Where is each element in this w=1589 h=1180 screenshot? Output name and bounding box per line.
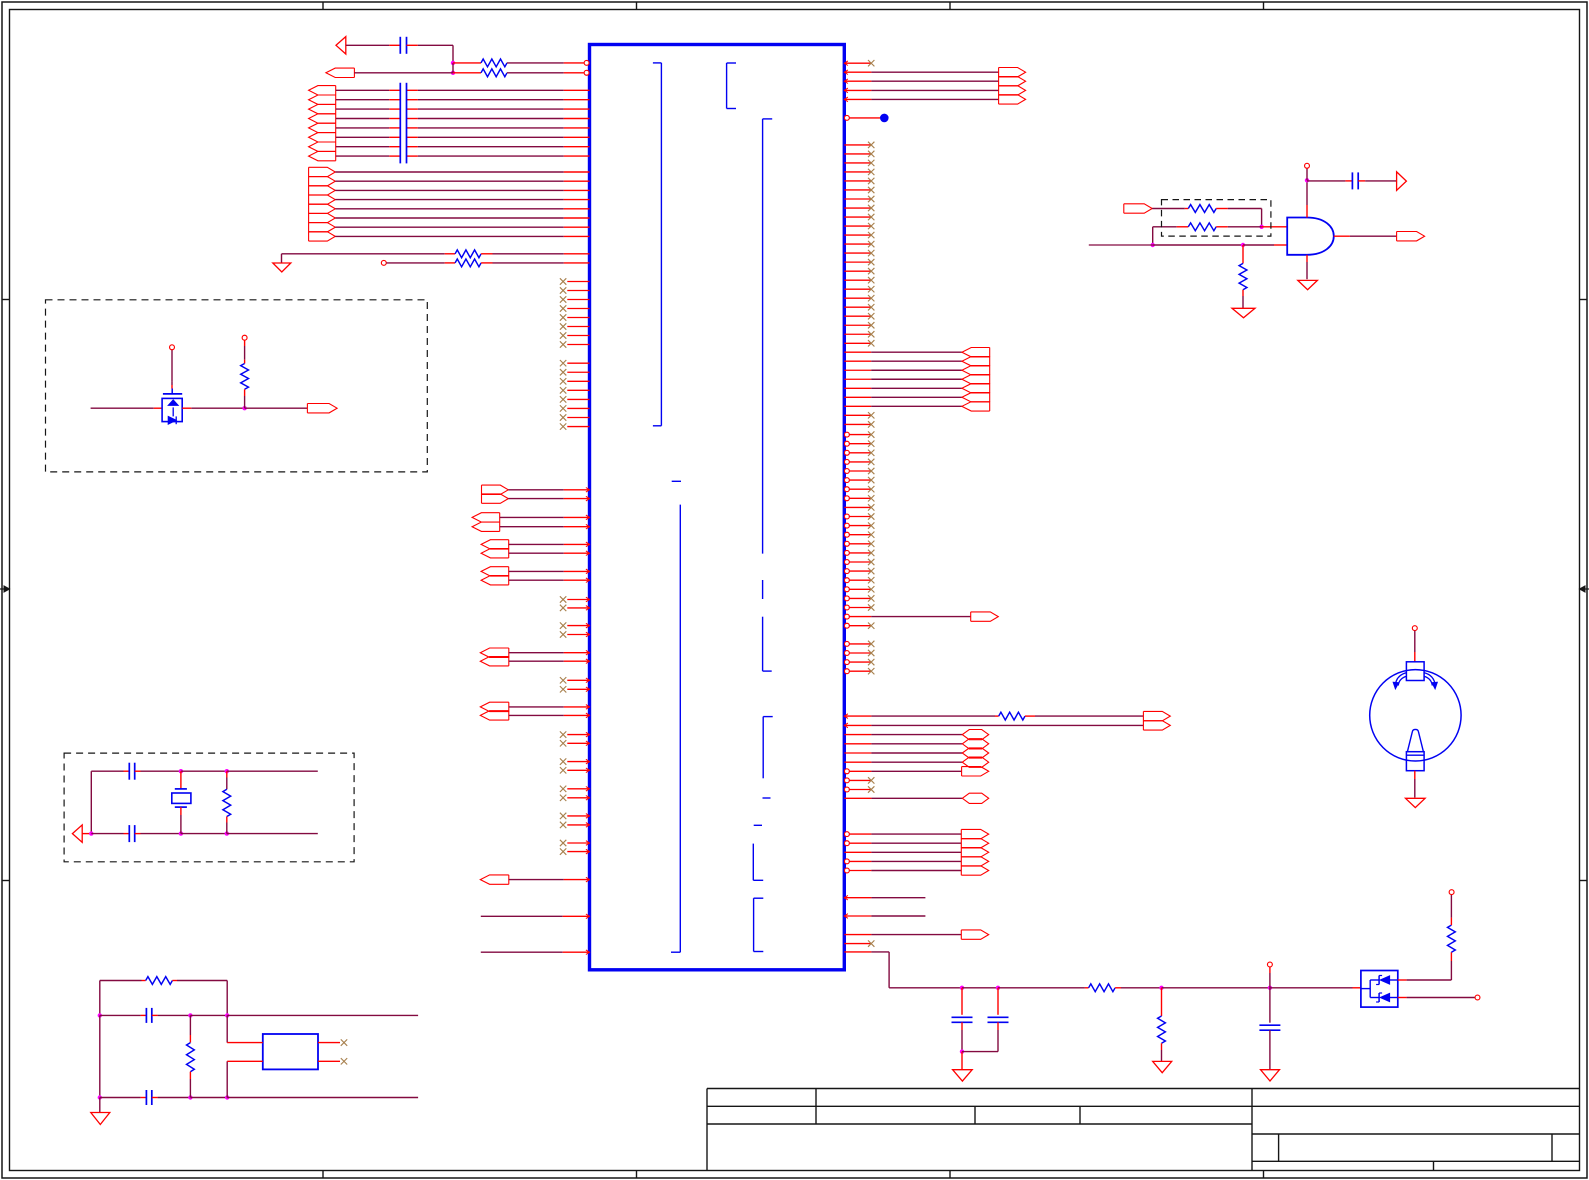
no-connect pin right a9 xyxy=(844,216,871,218)
port connector P6 xyxy=(307,404,337,413)
port connector S7 xyxy=(961,930,988,939)
no-connect pin left 2 xyxy=(567,290,589,292)
port connector S2-7 xyxy=(962,402,990,411)
dual diode Q1 d1 xyxy=(1380,976,1389,984)
no-connect pin U3 out2 xyxy=(318,1060,340,1062)
pin stub G1-4 r xyxy=(407,118,418,120)
wire G2-3 xyxy=(335,189,564,191)
no-connect pin left mid 8 xyxy=(567,742,589,744)
pin stub C7 bot xyxy=(961,1022,963,1030)
pin bubble gate vcc xyxy=(1305,163,1310,168)
junction J11 xyxy=(179,831,183,835)
port connector G1-5 xyxy=(309,123,336,132)
power arrow GND6 xyxy=(1153,1061,1172,1072)
wire Vin dn xyxy=(1269,973,1271,988)
port connector S2-6 xyxy=(962,393,990,402)
port connector H3 xyxy=(962,748,988,758)
port connector N3 xyxy=(480,875,509,884)
wire M2a xyxy=(500,516,564,518)
wire G1-5 a xyxy=(336,127,390,129)
pin stub R3 l xyxy=(445,253,455,255)
pin bubble R10 vcc xyxy=(242,335,247,340)
wire reg row1 a xyxy=(100,1014,141,1016)
pin stub S6-4 xyxy=(850,860,872,862)
tvs diode D1 gate stem xyxy=(171,389,173,394)
capacitor C4 xyxy=(128,825,130,842)
pin stub row 952 xyxy=(844,951,871,953)
no-connect pin right c8 xyxy=(844,496,849,501)
port connector H2 xyxy=(962,739,988,749)
no-connect pin left mid 12 xyxy=(567,797,589,799)
wire C8 dn xyxy=(997,1030,999,1052)
resistor R6 xyxy=(999,712,1025,720)
wire J4 to R8 xyxy=(1153,226,1177,228)
wire row 934 xyxy=(871,934,961,936)
port connector G2-6 xyxy=(309,213,336,222)
no-connect pin right a15 xyxy=(844,270,871,272)
pin stub gate in1 xyxy=(1262,226,1288,228)
no-connect pin right c17 xyxy=(844,578,849,583)
junction J2 xyxy=(451,71,455,75)
port connector M1a xyxy=(482,485,509,494)
wire D1 top xyxy=(171,382,173,385)
pin stub R13 bot xyxy=(189,1072,191,1079)
no-connect pin right a23 xyxy=(844,342,871,344)
capacitor array CA1 xyxy=(399,83,401,164)
IC internal bracket J xyxy=(753,898,755,951)
port connector G2-1 xyxy=(309,167,336,176)
pin stub bluedot xyxy=(850,117,881,119)
port connector G2-3 xyxy=(309,186,336,195)
junction J13 xyxy=(98,1013,102,1017)
wire xtal top b xyxy=(141,770,181,772)
pin stub L5 xyxy=(563,951,590,953)
no-connect pin right c6 xyxy=(844,478,849,483)
no-connect pin right d3 xyxy=(844,660,849,665)
tvs diode D1 up arrow xyxy=(168,400,178,406)
capacitor C9 xyxy=(1259,1024,1280,1026)
pin stub M3a xyxy=(564,543,590,545)
junction J20 xyxy=(996,986,1000,990)
pin stub Y1 bot xyxy=(180,807,182,815)
pin stub R5-7 xyxy=(844,405,871,407)
pin stub G2-1 xyxy=(564,171,590,173)
port connector S1-1 xyxy=(999,68,1026,77)
tvs diode D1 body xyxy=(162,398,182,421)
wire C9 up xyxy=(1269,988,1271,1023)
crystal Y1 bottom plate xyxy=(175,806,187,808)
no-connect pin left 15 xyxy=(567,417,589,419)
resistor R15 xyxy=(1158,1016,1166,1043)
pin bubble S6-2 xyxy=(844,841,849,846)
capacitor C5 xyxy=(145,1008,147,1023)
pin stub Vin xyxy=(1269,967,1271,973)
pin stub C4 r xyxy=(135,833,141,835)
wire C2 to arrow xyxy=(1365,180,1396,182)
pin stub G2-4 xyxy=(564,199,590,201)
pin stub N1b xyxy=(564,660,590,662)
pin stub R10 bot xyxy=(244,389,246,396)
wire M3a xyxy=(509,543,564,545)
wire reg left drop2 xyxy=(99,1015,101,1097)
wire G2-7 xyxy=(335,226,564,228)
pin stub G2-2 xyxy=(564,180,590,182)
wire Q1 o2 xyxy=(1407,997,1475,999)
wire G2-8 xyxy=(335,235,564,237)
resistor R12 xyxy=(146,977,173,985)
pin stub R4-1 xyxy=(844,71,871,73)
pin bubble S6-4 xyxy=(844,859,849,864)
pin stub R4-3 xyxy=(844,89,871,91)
junction J23 xyxy=(960,1049,964,1053)
port connector G2-2 xyxy=(309,177,336,186)
pin bubble row 117.9 xyxy=(844,115,849,120)
IC internal bracket A xyxy=(660,63,662,426)
port connector S6-2 xyxy=(961,839,988,848)
pin stub Q1 o1 xyxy=(1398,979,1407,981)
wire xtal top c xyxy=(181,770,227,772)
port connector S4a xyxy=(1143,711,1170,720)
wire G1-8 b xyxy=(418,155,564,157)
IC internal line K xyxy=(679,505,681,953)
IC internal line C xyxy=(762,119,764,554)
pin stub row 716 xyxy=(844,715,871,717)
wire hex5 xyxy=(871,797,962,799)
no-connect pin right a22 xyxy=(844,333,871,335)
wire R15 dn xyxy=(1161,1050,1163,1061)
pin stub G1-1 ic xyxy=(564,89,590,91)
pin stub R11 top xyxy=(226,771,228,777)
crystal Y1 top plate xyxy=(175,788,187,790)
wire N1b xyxy=(509,660,564,662)
no-connect pin right c11 xyxy=(844,523,849,528)
pin stub G1-2 l xyxy=(389,99,400,101)
no-connect pin left mid 10 xyxy=(567,769,589,771)
no-connect pin left mid 4 xyxy=(567,634,589,636)
no-connect pin right e1 xyxy=(844,778,849,783)
pin stub C8 top xyxy=(997,988,999,1015)
wire esd in xyxy=(91,407,154,409)
pin bubble S6-1 xyxy=(844,832,849,837)
pin stub U3 pin1 xyxy=(227,1042,263,1044)
pin stub C5 r xyxy=(152,1014,158,1016)
wire bus d xyxy=(1121,987,1162,989)
junction J22 xyxy=(1268,986,1272,990)
wire dead2 xyxy=(871,915,925,917)
no-connect pin left mid 14 xyxy=(567,824,589,826)
no-connect pin left mid 15 xyxy=(567,842,589,844)
motor M1 arc right xyxy=(1424,673,1435,686)
wire net L4 xyxy=(481,915,563,917)
wire G1-8 a xyxy=(336,155,390,157)
pin stub C3 r xyxy=(135,770,141,772)
wire reg left drop xyxy=(99,981,101,1016)
wire row716 a xyxy=(871,715,995,717)
pin bubble R16 xyxy=(1449,890,1454,895)
no-connect pin left mid 3 xyxy=(567,625,589,627)
pin stub M4b xyxy=(564,579,590,581)
wire bus e xyxy=(1162,987,1270,989)
wire P2 to J2 xyxy=(354,72,453,74)
resistor R1 xyxy=(481,59,507,67)
pin stub G1-6 ic xyxy=(564,136,590,138)
pin stub G1-1 l xyxy=(389,89,400,91)
junction J17 xyxy=(188,1095,192,1099)
wire R5-6 xyxy=(871,396,962,398)
pin stub S6-1 xyxy=(850,833,872,835)
pin stub C3 l xyxy=(124,770,130,772)
wire J4 to J5 xyxy=(1153,244,1243,246)
no-connect pin left mid 6 xyxy=(567,688,589,690)
pin stub row 262.9 xyxy=(564,262,590,264)
wire U3 pin1 xyxy=(226,1015,228,1042)
pin stub M3b xyxy=(564,552,590,554)
wire S6-4 xyxy=(871,860,961,862)
wire G1-3 b xyxy=(418,108,564,110)
junction J21 xyxy=(1159,986,1163,990)
resistor R10 xyxy=(241,364,249,390)
wire R10 up xyxy=(244,346,246,360)
no-connect pin right e2 xyxy=(844,787,849,792)
IC internal dash H xyxy=(754,824,762,826)
no-connect pin right a5 xyxy=(844,180,871,182)
power arrow GND2 xyxy=(1232,308,1255,318)
wire R11 bot xyxy=(226,823,228,834)
no-connect pin left 16 xyxy=(567,426,589,428)
pin stub S6-3 xyxy=(844,851,871,853)
wire xtal top d xyxy=(227,770,318,772)
pin stub R5-6 xyxy=(844,396,871,398)
junction J9 xyxy=(225,769,229,773)
port arrow P7 xyxy=(72,825,82,842)
port connector H4 xyxy=(962,757,988,767)
pin stub D1 r xyxy=(182,407,191,409)
wire reg top b xyxy=(177,980,227,982)
wire D1 vcc xyxy=(171,350,173,382)
capacitor C7 xyxy=(952,1016,973,1018)
power arrow GND3 xyxy=(1298,280,1318,289)
pin stub G1-4 l xyxy=(389,118,400,120)
no-connect pin right a7 xyxy=(844,198,871,200)
wire M4a xyxy=(509,570,564,572)
no-connect pin right a11 xyxy=(844,234,871,236)
wire G2-6 xyxy=(335,217,564,219)
IC internal line E xyxy=(762,617,764,671)
pin stub G1-1 r xyxy=(407,89,418,91)
pin stub G1-7 r xyxy=(407,146,418,148)
wire G1-6 b xyxy=(418,136,564,138)
pin stub G2-8 xyxy=(564,235,590,237)
port connector M4b xyxy=(481,576,509,585)
pin stub R14 l xyxy=(1085,987,1089,989)
no-connect pin right d1 xyxy=(844,641,849,646)
wire dead1 xyxy=(871,897,925,899)
pin stub R12 r xyxy=(172,980,177,982)
no-connect pin left 1 xyxy=(567,281,589,283)
pin stub S6-2 xyxy=(850,842,872,844)
tvs diode D1 gate bar xyxy=(163,393,182,395)
junction J14 xyxy=(98,1095,102,1099)
wire R5-4 xyxy=(871,378,962,380)
resistor R4 xyxy=(455,259,481,267)
no-connect pin left 11 xyxy=(567,380,589,382)
wire R2 to IC xyxy=(507,72,564,74)
pin stub M2b xyxy=(564,526,590,528)
no-connect pin right a20 xyxy=(844,315,871,317)
wire M1 top xyxy=(1414,631,1416,652)
no-connect pin left mid 7 xyxy=(567,734,589,736)
no-connect pin right c1 xyxy=(844,432,849,437)
port connector P2 xyxy=(326,68,355,77)
wire row725 xyxy=(871,724,1143,726)
pin stub R4 l xyxy=(445,262,455,264)
port connector G1-6 xyxy=(309,133,336,142)
no-connect pin right a18 xyxy=(844,297,871,299)
pin stub R2 left xyxy=(453,72,481,74)
wire reg row1 b xyxy=(158,1014,191,1016)
no-connect pin left mid 16 xyxy=(567,851,589,853)
title block xyxy=(707,1088,1580,1090)
pin stub R6 l xyxy=(995,715,999,717)
pin stub C1 left xyxy=(389,44,400,46)
wire N3 xyxy=(509,879,564,881)
wire R16 dn xyxy=(1450,961,1452,980)
no-connect pin right a12 xyxy=(844,243,871,245)
pin stub C5 l xyxy=(141,1014,147,1016)
junction J6 xyxy=(1305,178,1309,182)
wire M1b xyxy=(508,498,564,500)
wire J6 right xyxy=(1307,180,1345,182)
wire G1-7 a xyxy=(336,146,390,148)
motor M1 bottom box xyxy=(1406,752,1424,771)
blue dot marker xyxy=(880,114,889,123)
no-connect pin right 0 xyxy=(844,62,871,64)
wire R4-1 xyxy=(871,71,998,73)
pin stub row 725 xyxy=(844,724,871,726)
dashed box DB1 xyxy=(46,300,428,472)
no-connect pin left mid 13 xyxy=(567,815,589,817)
no-connect pin right c4 xyxy=(844,459,849,464)
pin stub Q1 o2 xyxy=(1398,997,1407,999)
IC internal line F xyxy=(762,717,764,779)
pin stub G1-5 r xyxy=(407,127,418,129)
wire xtal top a xyxy=(91,770,123,772)
wire R4-2 xyxy=(871,80,998,82)
pin stub M1 bot xyxy=(1414,771,1416,779)
wire G1-7 b xyxy=(418,146,564,148)
no-connect pin right c3 xyxy=(844,450,849,455)
pin bubble row 72.8 xyxy=(584,70,589,75)
pin stub R13 top xyxy=(189,1035,191,1043)
pin stub C4 l2 xyxy=(124,833,130,835)
no-connect pin right b1 xyxy=(844,414,871,416)
no-connect pin left 7 xyxy=(567,335,589,337)
wire reg row2 d xyxy=(227,1097,418,1099)
no-connect pin left 10 xyxy=(567,371,589,373)
signal wire stub xyxy=(1089,244,1153,246)
port connector S1-3 xyxy=(999,86,1026,95)
pin stub M1 top xyxy=(1414,652,1416,662)
port connector S2-3 xyxy=(962,366,990,375)
pin stub R16 top xyxy=(1450,918,1452,926)
wire G1-4 a xyxy=(336,118,390,120)
wire reg gnd xyxy=(99,1098,101,1113)
no-connect pin right b2 xyxy=(844,423,871,425)
port connector G2-4 xyxy=(309,195,336,204)
wire G1-4 b xyxy=(418,118,564,120)
no-connect pin right c9 xyxy=(844,506,871,508)
no-connect pin left 13 xyxy=(567,398,589,400)
wire row716 b xyxy=(1035,715,1143,717)
wire G1-2 b xyxy=(418,99,564,101)
wire R4 to IC xyxy=(493,262,564,264)
no-connect pin right c16 xyxy=(844,569,849,574)
pin stub C1 right xyxy=(407,44,418,46)
no-connect pin left mid 11 xyxy=(567,788,589,790)
pin bubble conn row xyxy=(844,614,849,619)
pin stub G2-6 xyxy=(564,217,590,219)
no-connect pin right a17 xyxy=(844,288,871,290)
pin stub G1-8 ic xyxy=(564,155,590,157)
wire G1-3 a xyxy=(336,108,390,110)
wire M4b xyxy=(509,579,564,581)
pin stub G1-4 ic xyxy=(564,118,590,120)
pin stub C4 l xyxy=(91,833,123,835)
IC internal dash G xyxy=(763,797,771,799)
no-connect pin right c13 xyxy=(844,541,849,546)
wire G2-5 xyxy=(335,208,564,210)
no-connect pin right c18 xyxy=(844,587,849,592)
pin stub G1-5 l xyxy=(389,127,400,129)
port connector S6-5 xyxy=(961,866,988,875)
no-connect pin right a1 xyxy=(844,144,871,146)
pin stub G1-2 ic xyxy=(564,99,590,101)
wire R4-3 xyxy=(871,89,998,91)
wire hex4 xyxy=(871,761,962,763)
wire R13 up xyxy=(189,1015,191,1035)
wire G2-1 xyxy=(335,171,564,173)
border centre arrow left xyxy=(0,588,10,590)
pin stub S6-5 xyxy=(850,870,872,872)
no-connect pin right a8 xyxy=(844,207,871,209)
pin stub C6 l xyxy=(141,1097,147,1099)
motor M1 arc left xyxy=(1395,673,1406,686)
wire R4-4 xyxy=(871,98,998,100)
resistor R9 xyxy=(1239,263,1247,289)
wire C8 join xyxy=(962,1051,998,1053)
no-connect pin right a19 xyxy=(844,306,871,308)
pin stub G1-6 l xyxy=(389,136,400,138)
pin stub G1-3 ic xyxy=(564,108,590,110)
pin stub hex3 xyxy=(844,752,871,754)
resistor R7 xyxy=(1188,205,1216,213)
pin stub G1-2 r xyxy=(407,99,418,101)
pin stub gate bottom xyxy=(1306,255,1308,262)
resistor R8 xyxy=(1188,223,1216,231)
wire net L5 xyxy=(481,951,563,953)
wire row952 drop xyxy=(888,952,890,988)
capacitor C6 xyxy=(145,1090,147,1105)
no-connect pin right a6 xyxy=(844,189,871,191)
junction J1 xyxy=(451,61,455,65)
no-connect pin left 12 xyxy=(567,389,589,391)
power arrow GND7 xyxy=(1261,1070,1280,1081)
pin bubble S6-5 xyxy=(844,868,849,873)
port connector S3 xyxy=(971,612,999,621)
motor M1 cone xyxy=(1407,729,1423,751)
pin stub C7 top xyxy=(961,988,963,1015)
wire net2 horiz xyxy=(282,253,445,255)
